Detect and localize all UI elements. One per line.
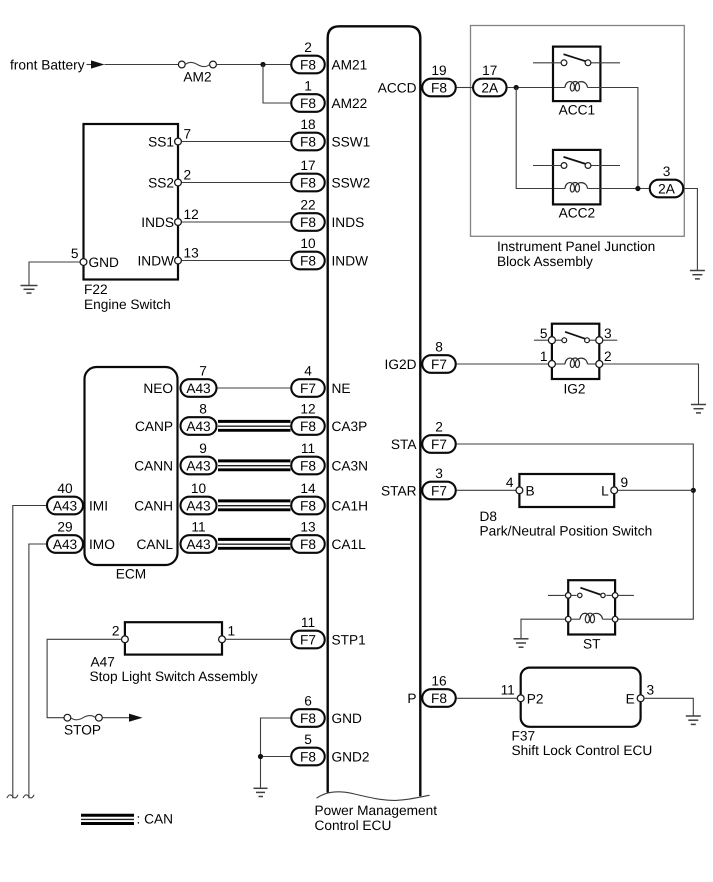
svg-text:F7: F7 — [300, 632, 316, 647]
svg-text:18: 18 — [300, 117, 316, 132]
connector A43 pin 29 (IMO) — [47, 520, 83, 553]
relay ST coil — [565, 613, 617, 623]
svg-text:7: 7 — [184, 127, 192, 142]
svg-text:6: 6 — [304, 694, 312, 709]
stop light switch A47 box — [125, 622, 222, 654]
svg-text:Instrument Panel Junction: Instrument Panel Junction — [497, 239, 655, 254]
svg-text:13: 13 — [184, 246, 200, 261]
svg-text:19: 19 — [431, 63, 446, 78]
park/neutral position switch D8 box — [519, 474, 614, 507]
svg-text:CA3P: CA3P — [332, 419, 368, 434]
ECU pin name SSW2 — [332, 175, 371, 190]
connector F8 pin 5 (GND2) — [291, 732, 325, 765]
D8 pin 9 (L) — [601, 475, 628, 498]
connector A43 pin 11 (CANL) — [181, 520, 217, 553]
svg-text:14: 14 — [300, 481, 316, 496]
engine switch pin name SS1 — [148, 134, 174, 149]
wire NEO to F7 pin 4 (NE) — [218, 387, 291, 389]
svg-text:A43: A43 — [53, 537, 78, 552]
ECM pin name CANP — [135, 419, 173, 434]
relay IG2 pin 2 — [596, 349, 612, 367]
wire 2A pin 17 to ACC1 coil — [507, 87, 565, 89]
relay ACC2 box — [553, 150, 600, 205]
fuse label AM2 — [183, 69, 211, 84]
svg-text:IG2D: IG2D — [385, 357, 417, 372]
svg-text:B: B — [526, 483, 535, 498]
wire INDS to F8 pin 22 — [181, 221, 290, 223]
wire SS2 to F8 pin 17 — [181, 182, 290, 184]
ECU pin name GND2 — [332, 749, 370, 764]
ECM pin name CANH — [134, 498, 173, 513]
svg-text:17: 17 — [300, 158, 315, 173]
connector F8 pin 1 (AM22) — [291, 79, 325, 112]
svg-text:3: 3 — [663, 164, 671, 179]
relay IG2 coil — [555, 358, 597, 368]
wire IG2D to IG2 relay pin 1 — [457, 363, 549, 365]
svg-text:A43: A43 — [186, 458, 211, 473]
junction node at 2A pin 3 — [635, 186, 640, 191]
engine switch F22 box — [84, 124, 179, 280]
ECM pin name NEO — [143, 381, 173, 396]
engine switch pin name INDS — [141, 215, 174, 230]
engine switch pin 13 (INDW) — [175, 246, 200, 264]
instrument panel junction block box — [471, 26, 685, 237]
svg-text:AM2: AM2 — [183, 69, 211, 84]
wire IMI down-left — [13, 506, 46, 799]
svg-text:Control ECU: Control ECU — [315, 818, 392, 833]
wire IMO down-left — [29, 544, 46, 798]
relay ST label — [583, 637, 601, 652]
ECU pin name IG2D — [385, 357, 417, 372]
connector 2A pin 3 — [650, 164, 684, 197]
label A47 Stop Light Switch Assembly — [90, 654, 258, 684]
wire IG2 pin 2 to ground — [603, 364, 698, 404]
svg-text:F8: F8 — [300, 215, 316, 230]
ground (junction block) — [690, 271, 705, 279]
F37 pin 3 (E) — [626, 683, 655, 707]
svg-text:16: 16 — [431, 674, 447, 689]
relay IG2 box — [552, 324, 599, 379]
ECM pin name IMO — [89, 537, 115, 552]
wire INDW to F8 pin 10 — [181, 260, 290, 262]
connector F8 pin 6 (GND) — [291, 694, 325, 727]
svg-text:NEO: NEO — [143, 381, 173, 396]
svg-text:F7: F7 — [431, 483, 447, 498]
wire GND pin to ground — [29, 262, 80, 285]
wire STA right and down to ST coil — [457, 444, 694, 619]
relay ACC2 label — [559, 206, 596, 221]
engine switch pin 2 (SS2) — [175, 168, 192, 186]
svg-text:P: P — [407, 691, 416, 706]
svg-text:A43: A43 — [186, 381, 211, 396]
label F37 Shift Lock Control ECU — [512, 728, 653, 758]
fuse label STOP — [64, 723, 101, 738]
connector F7 pin 11 (STP1) — [291, 615, 325, 648]
svg-text:F8: F8 — [300, 498, 316, 513]
svg-text:F22: F22 — [84, 282, 108, 297]
svg-text:SSW2: SSW2 — [332, 175, 371, 190]
svg-text:F8: F8 — [300, 134, 316, 149]
svg-text:40: 40 — [57, 481, 73, 496]
svg-text:A43: A43 — [186, 537, 211, 552]
svg-text:F7: F7 — [431, 437, 447, 452]
svg-text:11: 11 — [301, 615, 315, 630]
svg-text:A47: A47 — [91, 654, 115, 669]
svg-text:11: 11 — [301, 441, 315, 456]
svg-text:8: 8 — [199, 402, 207, 417]
fuse STOP — [64, 714, 102, 721]
ECU pin name CA3N — [332, 458, 369, 473]
connector F8 pin 19 (ACCD) — [422, 63, 456, 96]
wire break squiggle (IMI) — [7, 795, 18, 798]
svg-text:1: 1 — [540, 349, 548, 364]
wire A47 pin 1 to STP1 — [225, 638, 290, 640]
svg-text:F8: F8 — [300, 537, 316, 552]
svg-text:INDS: INDS — [141, 215, 174, 230]
wire branch to connector F8 pin 1 — [263, 65, 291, 104]
engine switch pin 7 (SS1) — [175, 127, 192, 145]
wire D8 pin L to junction — [618, 489, 694, 491]
relay ACC1 coil — [565, 81, 588, 91]
svg-text:Engine Switch: Engine Switch — [84, 297, 171, 312]
ECU pin name AM22 — [332, 96, 368, 111]
connector F8 pin 16 (P) — [422, 674, 456, 707]
ECU pin name STP1 — [332, 632, 366, 647]
svg-text:9: 9 — [621, 475, 629, 490]
svg-text:F8: F8 — [300, 175, 316, 190]
connector A43 pin 8 (CANP) — [181, 402, 217, 435]
F37 pin 11 (P2) — [501, 683, 544, 707]
A47 pin 1 — [219, 624, 236, 643]
engine switch pin name GND — [89, 255, 120, 270]
connector A43 pin 10 (CANH) — [181, 481, 217, 514]
svg-text:13: 13 — [300, 520, 316, 535]
svg-text:INDW: INDW — [332, 253, 369, 268]
junction node battery branch — [260, 62, 265, 67]
junction node ACC1/ACC2 branch — [514, 85, 519, 90]
svg-text:5: 5 — [304, 732, 312, 747]
ECU pin name INDW — [332, 253, 369, 268]
legend CAN bus symbol — [81, 815, 134, 823]
svg-text:AM21: AM21 — [332, 57, 368, 72]
svg-text:F8: F8 — [431, 80, 447, 95]
svg-text:P2: P2 — [527, 691, 544, 706]
ECM box — [85, 367, 178, 565]
connector A43 pin 7 (NEO) — [181, 364, 217, 397]
svg-text:L: L — [601, 483, 609, 498]
fuse AM2 — [178, 61, 216, 68]
svg-text:Power Management: Power Management — [315, 803, 438, 818]
svg-text:17: 17 — [482, 63, 497, 78]
connector F8 pin 14 (CA1H) — [291, 481, 325, 514]
svg-text:F8: F8 — [300, 458, 316, 473]
label front Battery — [10, 58, 85, 73]
svg-text:SS1: SS1 — [148, 134, 174, 149]
wire F37 pin E to ground — [644, 698, 693, 715]
wire fuse AM2 to connector F8 pin 2 — [216, 64, 290, 66]
svg-text:4: 4 — [304, 364, 312, 379]
connector F7 pin 2 (STA) — [422, 420, 456, 453]
connector F8 pin 2 (AM21) — [291, 40, 325, 73]
svg-text:F8: F8 — [300, 419, 316, 434]
svg-text:F7: F7 — [300, 381, 316, 396]
svg-text:IMO: IMO — [89, 537, 115, 552]
engine switch label F22 — [84, 282, 171, 312]
svg-text:1: 1 — [304, 79, 312, 94]
svg-text:: CAN: : CAN — [137, 812, 174, 827]
svg-text:2A: 2A — [658, 181, 676, 196]
svg-text:CANL: CANL — [136, 537, 173, 552]
connector F8 pin 13 (CA1L) — [291, 520, 325, 553]
svg-text:2: 2 — [184, 168, 192, 183]
engine switch pin name SS2 — [148, 175, 174, 190]
svg-text:F8: F8 — [300, 57, 316, 72]
svg-text:A43: A43 — [186, 498, 211, 513]
svg-text:F8: F8 — [300, 96, 316, 111]
ECM pin name CANN — [134, 458, 173, 473]
svg-text:F7: F7 — [431, 357, 447, 372]
svg-text:STAR: STAR — [381, 483, 417, 498]
svg-text:2A: 2A — [481, 80, 499, 95]
ECU pin name AM21 — [332, 57, 368, 72]
svg-text:3: 3 — [435, 466, 443, 481]
ground (ST) — [514, 639, 529, 647]
svg-text:SSW1: SSW1 — [332, 134, 371, 149]
relay ST switch contact — [548, 588, 634, 599]
legend label : CAN — [137, 812, 174, 827]
svg-text:CA1H: CA1H — [332, 498, 369, 513]
svg-text:Block Assembly: Block Assembly — [497, 254, 593, 269]
D8 pin 4 (B) — [506, 475, 535, 498]
svg-text:IG2: IG2 — [563, 382, 585, 397]
wire branch down to ACC2 coil — [516, 88, 565, 189]
svg-text:3: 3 — [647, 683, 655, 698]
svg-text:CANH: CANH — [134, 498, 173, 513]
shift lock control ECU F37 box — [521, 668, 641, 727]
svg-text:CANN: CANN — [134, 458, 173, 473]
wire GND pin to ground branch — [261, 718, 291, 788]
ground (engine switch) — [21, 286, 38, 294]
relay ST box — [568, 580, 615, 634]
connector F8 pin 22 (INDS) — [291, 198, 325, 231]
svg-text:2: 2 — [112, 624, 120, 639]
svg-text:STP1: STP1 — [332, 632, 366, 647]
ECU pin name INDS — [332, 215, 365, 230]
svg-text:12: 12 — [300, 402, 315, 417]
connector F8 pin 17 (SSW2) — [291, 158, 325, 191]
svg-text:GND2: GND2 — [332, 749, 370, 764]
svg-text:F8: F8 — [300, 253, 316, 268]
engine switch pin name INDW — [138, 253, 175, 268]
svg-text:Shift Lock Control ECU: Shift Lock Control ECU — [512, 743, 653, 758]
wire break squiggle (IMO) — [23, 795, 34, 798]
wire ACCD to 2A pin 17 — [457, 87, 473, 89]
connector F8 pin 11 (CA3N) — [291, 441, 325, 474]
CAN bus wire CANL to CA1L — [218, 539, 291, 548]
ground (ECU GND/GND2) — [254, 788, 268, 796]
ECM pin name IMI — [89, 498, 108, 513]
svg-text:2: 2 — [304, 40, 312, 55]
relay ACC1 label — [559, 103, 596, 118]
svg-text:E: E — [626, 691, 635, 706]
wire ST coil left to ground — [521, 619, 565, 638]
svg-text:ECM: ECM — [116, 567, 146, 582]
svg-text:D8: D8 — [480, 509, 498, 524]
ECU box: Power Management Control ECU outline — [328, 26, 421, 796]
connector F7 pin 4 (NE) — [291, 364, 325, 397]
relay IG2 switch contact — [534, 332, 617, 343]
ECU torn bottom wavy edge — [317, 792, 430, 801]
svg-text:5: 5 — [540, 326, 548, 341]
svg-text:INDS: INDS — [332, 215, 365, 230]
svg-text:CA3N: CA3N — [332, 458, 369, 473]
relay ACC1 switch contact — [533, 54, 620, 65]
wire ACC2 coil to 2A pin 3 — [588, 188, 649, 190]
label D8 Park/Neutral Position Switch — [480, 509, 653, 539]
label Instrument Panel Junction Block Assembly — [497, 239, 655, 269]
svg-text:F8: F8 — [431, 691, 447, 706]
relay ACC2 coil — [565, 182, 588, 192]
connector F8 pin 10 (INDW) — [291, 236, 325, 269]
junction node D8 L to STA wire — [691, 488, 696, 493]
svg-text:IMI: IMI — [89, 498, 108, 513]
svg-text:7: 7 — [199, 364, 207, 379]
connector F7 pin 3 (STAR) — [422, 466, 456, 499]
ECU label Power Management Control ECU — [315, 803, 438, 833]
connector F7 pin 8 (IG2D) — [422, 340, 456, 373]
svg-text:ACCD: ACCD — [378, 80, 417, 95]
svg-text:Stop Light Switch Assembly: Stop Light Switch Assembly — [90, 669, 258, 684]
svg-text:INDW: INDW — [138, 253, 175, 268]
svg-text:SS2: SS2 — [148, 175, 174, 190]
wire STOP fuse to arrow — [102, 717, 129, 719]
svg-text:AM22: AM22 — [332, 96, 368, 111]
wire P to F37 pin 11 — [457, 697, 518, 699]
ECU pin name STAR — [381, 483, 417, 498]
svg-text:3: 3 — [604, 326, 612, 341]
relay IG2 label — [563, 382, 585, 397]
svg-text:29: 29 — [57, 520, 72, 535]
connector 2A pin 17 — [473, 63, 507, 96]
svg-text:5: 5 — [71, 246, 79, 261]
wire A47 pin 2 down to STOP fuse — [47, 639, 121, 717]
ECU pin name GND — [332, 711, 363, 726]
relay ACC2 switch contact — [533, 157, 620, 169]
ECU pin name CA3P — [332, 419, 368, 434]
svg-text:ACC2: ACC2 — [559, 206, 596, 221]
svg-text:F8: F8 — [300, 711, 316, 726]
battery feed arrow — [87, 60, 105, 68]
svg-text:GND: GND — [89, 255, 120, 270]
svg-text:ST: ST — [583, 637, 601, 652]
svg-text:4: 4 — [506, 475, 514, 490]
ECU pin name NE — [332, 381, 351, 396]
svg-text:CANP: CANP — [135, 419, 173, 434]
wire GND2 pin to ground branch — [261, 756, 291, 758]
engine switch pin 12 (INDS) — [175, 207, 199, 225]
svg-text:10: 10 — [191, 481, 207, 496]
CAN bus wire CANP to CA3P — [218, 421, 291, 430]
ECU pin name CA1H — [332, 498, 369, 513]
ECU pin name ACCD — [378, 80, 417, 95]
ECU pin name P — [407, 691, 416, 706]
svg-text:STOP: STOP — [64, 723, 101, 738]
ECM label — [116, 567, 146, 582]
svg-text:11: 11 — [501, 683, 515, 698]
wire battery arrow to fuse AM2 — [105, 64, 179, 66]
relay IG2 pin 1 — [540, 349, 556, 367]
ECU pin name CA1L — [332, 537, 367, 552]
junction node GND2 branch — [258, 754, 263, 759]
A47 pin 2 — [112, 624, 128, 643]
ground (F37) — [686, 716, 701, 724]
svg-text:2: 2 — [604, 349, 612, 364]
wire STAR to D8 pin 4 — [457, 489, 517, 491]
svg-text:GND: GND — [332, 711, 363, 726]
connector A43 pin 40 (IMI) — [47, 481, 83, 514]
svg-text:10: 10 — [300, 236, 316, 251]
svg-text:CA1L: CA1L — [332, 537, 367, 552]
svg-text:8: 8 — [435, 340, 443, 355]
svg-text:STA: STA — [391, 437, 417, 452]
svg-text:22: 22 — [300, 198, 315, 213]
svg-text:11: 11 — [191, 520, 205, 535]
ground (IG2) — [691, 405, 706, 413]
wire 2A pin 3 to ground — [684, 189, 697, 271]
ECU pin name STA — [391, 437, 417, 452]
svg-text:F37: F37 — [512, 728, 536, 743]
relay IG2 pin 5 — [540, 326, 556, 344]
svg-text:front Battery: front Battery — [10, 58, 85, 73]
wire SS1 to F8 pin 18 — [181, 141, 290, 143]
svg-text:NE: NE — [332, 381, 351, 396]
ECM pin name CANL — [136, 537, 173, 552]
svg-text:2: 2 — [435, 420, 443, 435]
svg-text:12: 12 — [184, 207, 199, 222]
connector F8 pin 18 (SSW1) — [291, 117, 325, 150]
svg-text:F8: F8 — [300, 749, 316, 764]
svg-text:Park/Neutral Position Switch: Park/Neutral Position Switch — [480, 524, 653, 539]
CAN bus wire CANH to CA1H — [218, 501, 291, 510]
svg-text:A43: A43 — [53, 498, 78, 513]
CAN bus wire CANN to CA3N — [218, 461, 291, 470]
connector F8 pin 12 (CA3P) — [291, 402, 325, 435]
relay IG2 pin 3 — [596, 326, 612, 344]
connector A43 pin 9 (CANN) — [181, 441, 217, 474]
relay ACC1 box — [553, 47, 600, 102]
engine switch pin 5 (GND) — [71, 246, 87, 265]
svg-text:ACC1: ACC1 — [559, 103, 596, 118]
svg-text:A43: A43 — [186, 419, 211, 434]
wire ACC1 coil right and down — [588, 88, 638, 189]
svg-text:1: 1 — [228, 624, 236, 639]
svg-text:9: 9 — [199, 441, 207, 456]
STOP feed arrow — [129, 714, 143, 722]
ECU pin name SSW1 — [332, 134, 371, 149]
